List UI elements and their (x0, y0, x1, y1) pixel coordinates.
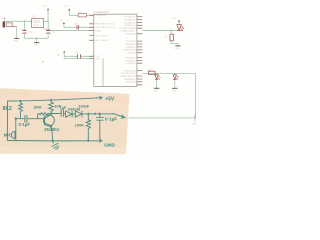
svg-text:AREF: AREF (95, 29, 101, 32)
svg-text:GND: GND (95, 59, 100, 61)
svg-text:2N3904: 2N3904 (44, 127, 59, 132)
svg-text:PB1(OC1A): PB1(OC1A) (124, 69, 136, 72)
svg-text:ADC6 AVCC: ADC6 AVCC (95, 34, 108, 37)
svg-text:100K: 100K (33, 106, 42, 110)
svg-text:1µF: 1µF (60, 106, 67, 110)
svg-text:GND: GND (175, 48, 180, 50)
svg-text:+5V: +5V (59, 20, 63, 22)
svg-text:GND: GND (34, 45, 39, 47)
svg-text:PC0(ADC0): PC0(ADC0) (124, 16, 136, 19)
svg-text:GND: GND (14, 40, 19, 42)
svg-text:+5V: +5V (105, 97, 115, 103)
svg-text:PC1(ADC1): PC1(ADC1) (124, 18, 136, 21)
svg-text:PB5(SCK): PB5(SCK) (126, 82, 136, 84)
svg-text:0·1µF: 0·1µF (19, 122, 31, 127)
svg-text:PD3(INT1): PD3(INT1) (125, 47, 136, 49)
svg-text:PC3(ADC3): PC3(ADC3) (124, 24, 136, 27)
svg-text:VI VO: VI VO (33, 25, 39, 27)
svg-text:+5V: +5V (64, 6, 68, 8)
svg-text:MIC: MIC (193, 123, 197, 125)
svg-text:MIC: MIC (4, 133, 13, 138)
svg-text:PB6(XTAL1/TOSC1): PB6(XTAL1/TOSC1) (95, 23, 115, 26)
svg-text:GND: GND (172, 91, 177, 93)
svg-text:GND: GND (153, 91, 158, 93)
svg-text:PD6(AIN0): PD6(AIN0) (125, 57, 136, 60)
svg-text:PB2(SS/OC1B): PB2(SS/OC1B) (121, 73, 136, 75)
svg-text:PD1(TXD): PD1(TXD) (126, 41, 136, 43)
svg-text:8K2: 8K2 (3, 106, 12, 112)
svg-text:PD4(XCK/T0): PD4(XCK/T0) (122, 50, 135, 52)
svg-text:78L05: 78L05 (33, 21, 40, 24)
svg-text:ADC7 AGND: ADC7 AGND (95, 39, 109, 42)
svg-text:PD2(INT0): PD2(INT0) (125, 44, 136, 46)
svg-text:PD0(RXD): PD0(RXD) (125, 34, 135, 36)
svg-text:PC5(ADC5/SCL): PC5(ADC5/SCL) (119, 29, 135, 32)
svg-text:PB3(MOSI/OC2): PB3(MOSI/OC2) (120, 76, 136, 78)
svg-text:PD7(AIN1): PD7(AIN1) (125, 59, 136, 62)
svg-text:100µ: 100µ (28, 32, 34, 34)
svg-text:IC1 MEGA8-P: IC1 MEGA8-P (93, 11, 109, 14)
svg-text:PB7(XTAL2/TOSC2): PB7(XTAL2/TOSC2) (95, 26, 115, 29)
svg-text:+5V: +5V (43, 6, 47, 8)
svg-text:PB4(MISO): PB4(MISO) (125, 79, 136, 81)
svg-text:PB0(ICP): PB0(ICP) (126, 63, 135, 65)
svg-text:0·1µF: 0·1µF (105, 117, 117, 122)
svg-text:PD5(T1): PD5(T1) (127, 53, 135, 55)
svg-text:GND: GND (104, 143, 115, 149)
svg-text:PC6(/RES): PC6(/RES) (95, 15, 106, 17)
svg-text:RESET: RESET (44, 29, 52, 31)
svg-text:PC2(ADC2): PC2(ADC2) (124, 21, 136, 24)
svg-text:+5V: +5V (172, 18, 176, 20)
svg-text:100nF: 100nF (79, 105, 90, 109)
svg-text:100K: 100K (75, 122, 84, 127)
